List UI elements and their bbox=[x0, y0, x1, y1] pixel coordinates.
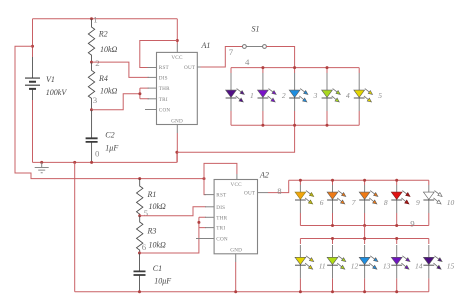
lead LED branch 2b bbox=[332, 185, 334, 213]
op-amp/timer U A1 box bbox=[157, 52, 198, 124]
svg-text:GND: GND bbox=[230, 248, 242, 254]
svg-text:OUT: OUT bbox=[244, 191, 256, 197]
capacitor C2 bbox=[86, 110, 98, 163]
LED 8 bbox=[359, 191, 378, 204]
svg-text:12: 12 bbox=[351, 261, 359, 270]
svg-text:CON: CON bbox=[216, 237, 228, 243]
svg-text:9: 9 bbox=[416, 198, 420, 207]
lead LED branch 1b bbox=[299, 185, 301, 213]
wire RST A1 bbox=[140, 41, 178, 68]
wire OUT A1 to switch bbox=[201, 47, 243, 68]
svg-text:3: 3 bbox=[313, 91, 318, 100]
svg-text:2: 2 bbox=[95, 58, 99, 68]
node 5 dot bbox=[138, 214, 141, 217]
resistor R2 bbox=[88, 19, 94, 62]
svg-text:14: 14 bbox=[415, 261, 423, 270]
pin stub CON A1 bbox=[145, 109, 157, 111]
junction dot gnd line bbox=[175, 151, 178, 154]
wire LED branch 1c bbox=[299, 239, 301, 292]
wire DIS A2 from node 5 bbox=[140, 207, 206, 216]
pin stub THR A1 bbox=[148, 87, 157, 89]
junction dot C2 on rail bbox=[90, 161, 93, 164]
svg-text:7: 7 bbox=[229, 47, 234, 57]
svg-text:2: 2 bbox=[282, 91, 286, 100]
resistor R3 bbox=[137, 216, 143, 253]
svg-text:10kΩ: 10kΩ bbox=[100, 45, 118, 54]
svg-text:R1: R1 bbox=[147, 190, 157, 199]
wire gnd line to LED row 1 return bbox=[177, 125, 295, 152]
wire LED branch 2b bbox=[332, 180, 334, 225]
wire LED branch 5c bbox=[428, 239, 430, 292]
wire LED branch 3b bbox=[364, 180, 366, 225]
wire LED branch 2a bbox=[262, 68, 264, 126]
LED 10 bbox=[423, 191, 442, 204]
pin stub DIS A1 bbox=[148, 76, 157, 78]
wire LED branch 3c bbox=[364, 239, 366, 292]
svg-text:8: 8 bbox=[277, 186, 282, 196]
pin stub TRI A2 bbox=[205, 227, 214, 229]
svg-text:3: 3 bbox=[93, 95, 98, 105]
wire LED branch 1a bbox=[230, 68, 232, 126]
lead LED branch 1a bbox=[230, 73, 232, 111]
wire bottom rail (ground return) bbox=[75, 291, 429, 293]
pin stub VCC A2 bbox=[236, 174, 238, 180]
pin stub GND A1 bbox=[176, 125, 178, 134]
lead LED branch 4a bbox=[326, 73, 328, 111]
capacitor C1 bbox=[134, 253, 146, 292]
wire row3 top rail bbox=[300, 238, 428, 240]
wire ground rail bbox=[33, 161, 177, 163]
pin stub OUT A2 bbox=[258, 192, 269, 194]
svg-text:100kV: 100kV bbox=[46, 88, 68, 97]
svg-text:TRI: TRI bbox=[159, 97, 168, 103]
svg-text:7: 7 bbox=[352, 198, 356, 207]
svg-text:5: 5 bbox=[144, 208, 149, 218]
LED 14 bbox=[391, 256, 410, 269]
junction dot THR/TRI A1 bbox=[138, 92, 141, 95]
resistor R1 bbox=[137, 179, 143, 216]
svg-text:VCC: VCC bbox=[231, 182, 243, 188]
svg-text:THR: THR bbox=[216, 215, 227, 221]
wire VCC A2 bbox=[204, 163, 237, 178]
wire RST A2 bbox=[204, 179, 206, 195]
lead LED branch 1c bbox=[299, 245, 301, 278]
svg-text:6: 6 bbox=[320, 198, 324, 207]
wire battery bottom lead bbox=[32, 100, 34, 162]
pin stub CON A2 bbox=[196, 238, 214, 240]
battery V1 bbox=[25, 57, 40, 100]
junction dot RST/VCC A1 bbox=[176, 39, 179, 42]
svg-text:VCC: VCC bbox=[171, 55, 183, 61]
junction dot R1 top bbox=[138, 177, 141, 180]
svg-text:V1: V1 bbox=[46, 75, 55, 84]
svg-text:A2: A2 bbox=[259, 171, 269, 180]
junction dot THR/TRI A2 bbox=[197, 221, 200, 224]
junction dot VCC/RST A2 bbox=[203, 177, 206, 180]
svg-text:10kΩ: 10kΩ bbox=[149, 241, 167, 250]
svg-text:R3: R3 bbox=[147, 227, 157, 236]
wire GND A1 down bbox=[176, 133, 178, 162]
junction dots row3 bottom rail bbox=[299, 290, 302, 293]
lead LED branch 2c bbox=[332, 245, 334, 278]
svg-text:A1: A1 bbox=[201, 41, 211, 50]
svg-text:R4: R4 bbox=[98, 74, 108, 83]
LED 15 bbox=[423, 256, 442, 269]
svg-text:0: 0 bbox=[95, 148, 100, 158]
svg-text:RST: RST bbox=[159, 65, 170, 71]
wire OUT A2 to row 2 bbox=[268, 180, 289, 192]
svg-text:DIS: DIS bbox=[216, 205, 225, 211]
op-amp/timer U A2 box bbox=[214, 180, 257, 254]
wire top rail from battery to VCC corner bbox=[33, 18, 178, 20]
wire switch to LED row 1 bbox=[266, 47, 294, 68]
wire row2 to row3 connector bbox=[364, 226, 366, 239]
wire row2 top rail bbox=[289, 179, 429, 181]
junction dots row3 top rail bbox=[331, 237, 334, 240]
pin stub DIS A2 bbox=[205, 206, 214, 208]
svg-text:GND: GND bbox=[171, 118, 183, 124]
svg-text:6: 6 bbox=[142, 242, 147, 252]
junction dots row2 top rail bbox=[299, 179, 302, 182]
LED 7 bbox=[327, 191, 346, 204]
lead LED branch 4b bbox=[396, 185, 398, 213]
svg-text:1μF: 1μF bbox=[105, 143, 118, 152]
svg-text:RST: RST bbox=[216, 193, 227, 199]
junction dot ground tap bbox=[40, 161, 43, 164]
wire row1 bottom rail bbox=[231, 124, 359, 126]
svg-text:S1: S1 bbox=[252, 25, 260, 34]
wire row2 bottom rail bbox=[300, 225, 428, 227]
svg-text:C2: C2 bbox=[105, 131, 114, 140]
node 3 dot bbox=[90, 108, 93, 111]
pin stub GND A2 bbox=[235, 254, 237, 262]
svg-text:4: 4 bbox=[346, 91, 350, 100]
LED 12 bbox=[327, 256, 346, 269]
svg-text:10: 10 bbox=[447, 198, 455, 207]
LED 13 bbox=[359, 256, 378, 269]
resistor R4 bbox=[88, 62, 94, 110]
wire VCC A1 bbox=[176, 19, 178, 44]
lead LED branch 2a bbox=[262, 73, 264, 111]
lead LED branch 3a bbox=[294, 73, 296, 111]
svg-text:10kΩ: 10kΩ bbox=[100, 87, 118, 96]
svg-text:5: 5 bbox=[378, 91, 382, 100]
wire LED branch 4a bbox=[326, 68, 328, 126]
wire LED branch 1b bbox=[299, 180, 301, 225]
junction dot C1 on bottom rail bbox=[138, 290, 141, 293]
node 2 dot bbox=[90, 61, 93, 64]
LED 3 bbox=[289, 89, 308, 102]
svg-text:8: 8 bbox=[384, 198, 388, 207]
svg-text:CON: CON bbox=[159, 108, 171, 114]
wire row1 top rail bbox=[231, 67, 359, 69]
switch S1 bbox=[243, 45, 267, 49]
lead LED branch 5a bbox=[358, 73, 360, 111]
lead LED branch 3c bbox=[364, 245, 366, 278]
pin stub VCC A1 bbox=[176, 44, 178, 52]
wire left VCC feed to lower circuit bbox=[15, 46, 204, 178]
ground symbol bbox=[35, 162, 49, 172]
pin stub OUT A1 bbox=[197, 66, 200, 68]
node 6 dot bbox=[138, 252, 141, 255]
svg-text:15: 15 bbox=[447, 261, 455, 270]
LED 1 bbox=[226, 89, 245, 102]
svg-text:OUT: OUT bbox=[184, 65, 196, 71]
LED 5 bbox=[354, 89, 373, 102]
wire LED branch 3a bbox=[294, 68, 296, 126]
LED 4 bbox=[322, 89, 341, 102]
wire THR/TRI A1 from node 3 bbox=[92, 88, 150, 110]
svg-text:4: 4 bbox=[245, 57, 250, 67]
wire LED branch 4b bbox=[396, 180, 398, 225]
LED 6 bbox=[295, 191, 314, 204]
lead LED branch 5c bbox=[428, 245, 430, 278]
junction dot bottom-rail feed bbox=[73, 161, 76, 164]
wire DIS A1 from node 2 bbox=[92, 62, 150, 77]
wire LED branch 4c bbox=[396, 239, 398, 292]
svg-text:1: 1 bbox=[250, 91, 254, 100]
svg-text:13: 13 bbox=[383, 261, 391, 270]
svg-text:THR: THR bbox=[159, 86, 170, 92]
lead LED branch 4c bbox=[396, 245, 398, 278]
junction dots row2 bottom rail bbox=[331, 224, 334, 227]
junction dots row1 bottom rail bbox=[261, 124, 264, 127]
svg-text:C1: C1 bbox=[153, 264, 162, 273]
wire LED branch 2c bbox=[332, 239, 334, 292]
wire ground drop to bottom rail bbox=[74, 162, 76, 291]
junction dots row1 top rail bbox=[261, 66, 264, 69]
svg-text:TRI: TRI bbox=[216, 226, 225, 232]
pin stub TRI A1 bbox=[148, 98, 157, 100]
wire LED branch 5a bbox=[358, 68, 360, 126]
svg-text:10kΩ: 10kΩ bbox=[149, 202, 167, 211]
wire THR/TRI A2 from node 6 bbox=[140, 217, 207, 253]
svg-text:9: 9 bbox=[410, 218, 415, 228]
LED 11 bbox=[295, 256, 314, 269]
svg-text:DIS: DIS bbox=[159, 75, 168, 81]
pin stub RST A1 bbox=[148, 67, 157, 69]
LED 2 bbox=[258, 89, 277, 102]
lead LED branch 5b bbox=[428, 185, 430, 213]
pin stub THR A2 bbox=[205, 216, 214, 218]
wire battery top lead (red part) bbox=[32, 19, 34, 57]
svg-text:11: 11 bbox=[319, 261, 326, 270]
svg-text:10μF: 10μF bbox=[154, 276, 171, 285]
junction dot A2 GND on bottom rail bbox=[234, 290, 237, 293]
wire GND A2 down bbox=[235, 262, 237, 292]
wire LED branch 5b bbox=[428, 180, 430, 225]
node 1 dot bbox=[90, 17, 93, 20]
pin stub RST A2 bbox=[204, 194, 214, 196]
wire rail up-corner to gnd line bbox=[176, 152, 178, 162]
svg-text:1: 1 bbox=[93, 14, 97, 24]
svg-text:R2: R2 bbox=[98, 30, 108, 39]
LED 9 bbox=[391, 191, 410, 204]
lead LED branch 3b bbox=[364, 185, 366, 213]
node junction dot battery tap bbox=[31, 45, 34, 48]
